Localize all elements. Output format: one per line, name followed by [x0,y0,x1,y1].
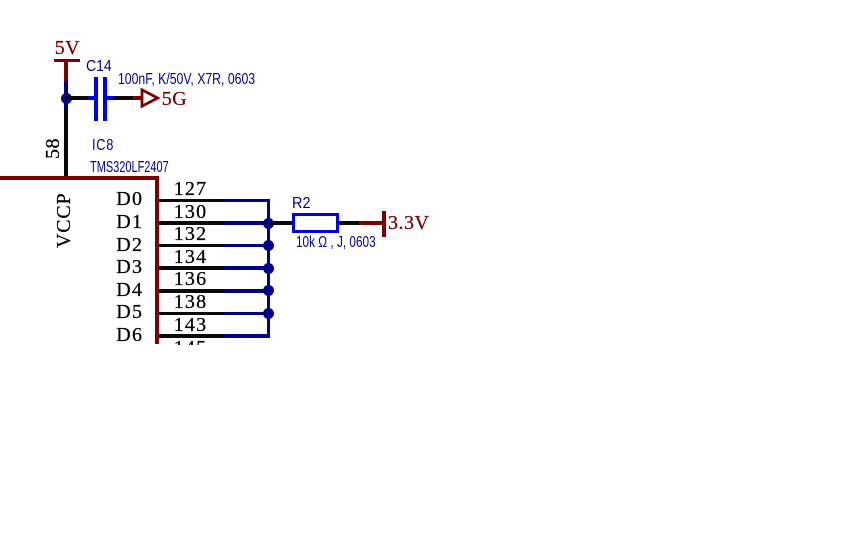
wire junction to C14 left pin [66,96,88,100]
label R2 value [296,235,376,251]
pin D4 wire navy [224,289,270,293]
pin D3 number 134 [174,247,208,267]
power 5V label [55,38,80,58]
wire vertical black to IC pin 58 [64,109,68,177]
junction dot bus row D3 [263,263,274,274]
pin D5 name [116,302,143,322]
pin D2 name [116,235,143,255]
pin D2 wire navy [224,244,270,248]
junction dot bus row D1 [263,218,274,229]
pin D4 name [116,280,143,300]
wire C14 right pin to port 5G [113,96,133,100]
junction dot bus row D2 [263,240,274,251]
pin D7 number 145 (clipped at image bottom) [174,338,216,345]
power 3.3V bar symbol [382,211,386,236]
pin number 58 (rotated) [43,138,63,159]
junction dot at C14 tap [61,93,72,104]
power 3.3V red wire stub [359,221,383,224]
label R2 [292,196,310,212]
pin D6 wire black [159,334,225,338]
pin D3 wire black [159,266,225,270]
pin D4 number 136 [174,269,208,289]
junction dot bus row D5 [263,308,274,319]
label TMS320LF2407 [90,160,169,176]
pin D1 wire navy [224,221,270,225]
pin D0 wire black [159,199,225,203]
pin D2 number 132 [174,224,208,244]
power 3.3V label [388,213,429,233]
resistor R2 body [292,213,340,234]
pin D0 name [116,189,143,209]
pin D6 wire navy [224,334,270,338]
wire bus to R2 [270,221,292,225]
data bus vertical wire [267,199,271,338]
pin D5 wire black [159,312,225,316]
wire navy segment below 5V stub [64,81,68,109]
port 5G triangle [139,86,161,110]
pin D3 name [116,257,143,277]
pin D2 wire black [159,244,225,248]
label C14 [86,59,112,75]
pin D5 wire navy [224,312,270,316]
port 5G red wire stub [133,96,142,99]
pin D5 number 138 [174,292,208,312]
pin D0 wire navy [224,199,270,203]
capacitor C14 [88,96,95,100]
pin D0 number 127 [174,179,208,199]
label IC8 [92,138,114,154]
wire R2 to 3.3V [339,221,359,225]
pin D4 wire black [159,289,225,293]
pin D1 wire black [159,221,225,225]
IC8 box right edge [155,176,159,344]
power 5V bar symbol [54,59,81,63]
power 5V pin stub (red) [64,62,68,81]
pin D6 name [116,325,143,345]
pin D1 name [116,212,143,232]
pin D3 wire navy [224,266,270,270]
IC8 box top edge [0,176,159,180]
pin name VCCP (rotated) [54,193,74,248]
label 5G [162,89,187,109]
junction dot bus row D4 [263,285,274,296]
pin D6 number 143 [174,315,208,335]
label C14 value [118,72,255,88]
pin D1 number 130 [174,202,208,222]
